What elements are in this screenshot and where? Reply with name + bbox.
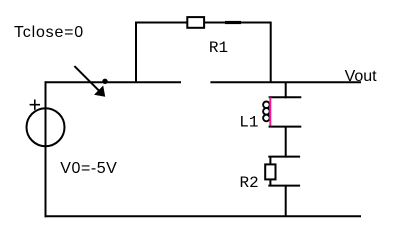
wire main horizontal left xyxy=(46,81,182,83)
wire left vertical of top branch xyxy=(135,22,137,84)
resistor R1 xyxy=(187,17,204,28)
resistor R2 body xyxy=(265,164,275,179)
wire top left segment xyxy=(136,22,187,24)
svg-text:Tclose=0: Tclose=0 xyxy=(14,24,84,41)
inductor L1 coil rings xyxy=(263,102,270,122)
resistor R2 top lead xyxy=(269,157,271,165)
resistor R2 top bar xyxy=(268,156,300,158)
node junction dot xyxy=(102,79,107,84)
wire right vertical of top branch xyxy=(270,22,272,84)
wire stub main to L1 xyxy=(285,82,287,98)
inductor L1 top bar xyxy=(269,96,302,98)
wire R1 right pin (thicker) xyxy=(225,21,241,24)
wire top right segment xyxy=(205,22,271,24)
switch arrowhead xyxy=(94,86,105,97)
wire stub L1 to R2 xyxy=(285,127,287,158)
wire bottom horizontal xyxy=(45,215,362,217)
svg-text:Vout: Vout xyxy=(345,68,378,85)
wire stub R2 to bottom xyxy=(285,186,287,217)
svg-text:R2: R2 xyxy=(240,174,259,192)
svg-text:L1: L1 xyxy=(239,113,258,131)
wire main horizontal right xyxy=(210,81,361,83)
resistor R2 bottom lead xyxy=(269,179,271,185)
inductor L1 bottom bar xyxy=(269,126,302,128)
inductor L1 body line (magenta) xyxy=(269,97,271,126)
wire left vertical xyxy=(45,81,47,217)
svg-text:V0=-5V: V0=-5V xyxy=(60,160,117,177)
voltage source plus sign xyxy=(30,100,40,110)
voltage source V0 circle xyxy=(27,108,65,146)
switch arm diagonal xyxy=(74,66,99,91)
svg-text:R1: R1 xyxy=(209,39,228,57)
resistor R2 bottom bar xyxy=(268,185,300,187)
